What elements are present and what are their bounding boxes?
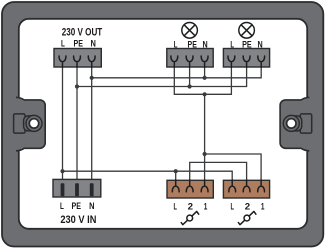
svg-text:L: L (61, 38, 65, 49)
terminal block 230V OUT (54, 49, 101, 68)
mounting lug left (14, 97, 46, 151)
svg-text:2: 2 (245, 201, 250, 212)
mounting lug right (280, 97, 312, 151)
labels L PE N (lamp1) (174, 39, 208, 50)
wire N main (230V IN N to 230V OUT N) (91, 67, 93, 184)
svg-text:1: 1 (204, 201, 208, 212)
wire lamp1 PE stem (189, 67, 191, 87)
node lamp1 N junction (203, 76, 207, 80)
lamp E2 symbol (239, 23, 255, 39)
clamp terminals switch2 (L, 2, 1) (229, 180, 265, 192)
terminal block switch2 (223, 180, 269, 198)
wire L main (230V IN L to 230V OUT L) (62, 67, 64, 184)
terminal block 230V IN (53, 179, 101, 197)
svg-text:N: N (258, 39, 263, 50)
svg-text:230 V IN: 230 V IN (60, 214, 96, 226)
terminal block lamp1 (167, 49, 213, 68)
wire PE feeder to lamps (77, 67, 247, 87)
svg-text:L: L (174, 39, 178, 50)
svg-text:PE: PE (72, 201, 82, 212)
wire switched line drop to switch1 terminal 1 (204, 94, 206, 181)
labels L PE N (lamp2) (230, 39, 262, 50)
clamp terminals switch1 (L, 2, 1) (172, 180, 208, 192)
switch S2 symbol (238, 211, 256, 224)
wire PE main (230V IN PE to 230V OUT PE) (76, 67, 78, 184)
node switched line junction (203, 92, 207, 96)
node PE feeder junction (75, 84, 79, 88)
clamp terminals 230V OUT (L, PE, N) (59, 56, 95, 67)
svg-text:230 V OUT: 230 V OUT (62, 26, 103, 38)
wire traveler switch1-2 to switch2-2 (190, 162, 247, 180)
clamp terminals lamp1 (L, PE, N) (171, 56, 208, 67)
svg-text:L: L (173, 201, 177, 212)
pin N of 230V IN (90, 183, 94, 196)
wire switch1 L stem (175, 171, 177, 181)
svg-text:L: L (231, 201, 235, 212)
svg-text:PE: PE (188, 39, 198, 50)
pin PE of 230V IN (75, 183, 79, 196)
wire N feeder to lamps (92, 67, 262, 78)
svg-text:L: L (230, 39, 234, 50)
terminal block lamp2 (223, 49, 269, 68)
labels L 2 1 (switch2) (231, 201, 265, 212)
svg-text:L: L (60, 201, 64, 212)
node traveler 1 junction (203, 152, 207, 156)
lamp E1 symbol (182, 23, 198, 39)
node lamp1 PE junction (188, 84, 192, 88)
labels L 2 1 (switch1) (173, 201, 207, 212)
enclosure inner cavity (19, 19, 307, 229)
labels L PE N (230V IN) (60, 201, 94, 212)
svg-text:PE: PE (242, 39, 252, 50)
svg-text:N: N (203, 39, 208, 50)
svg-text:PE: PE (74, 38, 84, 49)
wire switched lamp line (lamp1 L to lamp2 L) (174, 67, 231, 94)
clamp terminals lamp2 (L, PE, N) (228, 56, 265, 67)
svg-text:2: 2 (188, 201, 193, 212)
switch S1 symbol (181, 211, 199, 224)
svg-text:1: 1 (261, 201, 265, 212)
labels L PE N (230V OUT) (61, 38, 96, 49)
node L feeder junction (60, 169, 64, 173)
pin L of 230V IN (61, 183, 65, 196)
svg-text:N: N (91, 38, 96, 49)
wire lamp1 N stem (204, 67, 206, 78)
terminal block switch1 (167, 180, 213, 198)
wire branch to switch2 terminal 1 (205, 154, 262, 181)
node switch1 L junction (174, 169, 178, 173)
svg-text:N: N (89, 201, 94, 212)
wire L feeder to switches (63, 171, 233, 181)
node N feeder junction (90, 76, 94, 80)
